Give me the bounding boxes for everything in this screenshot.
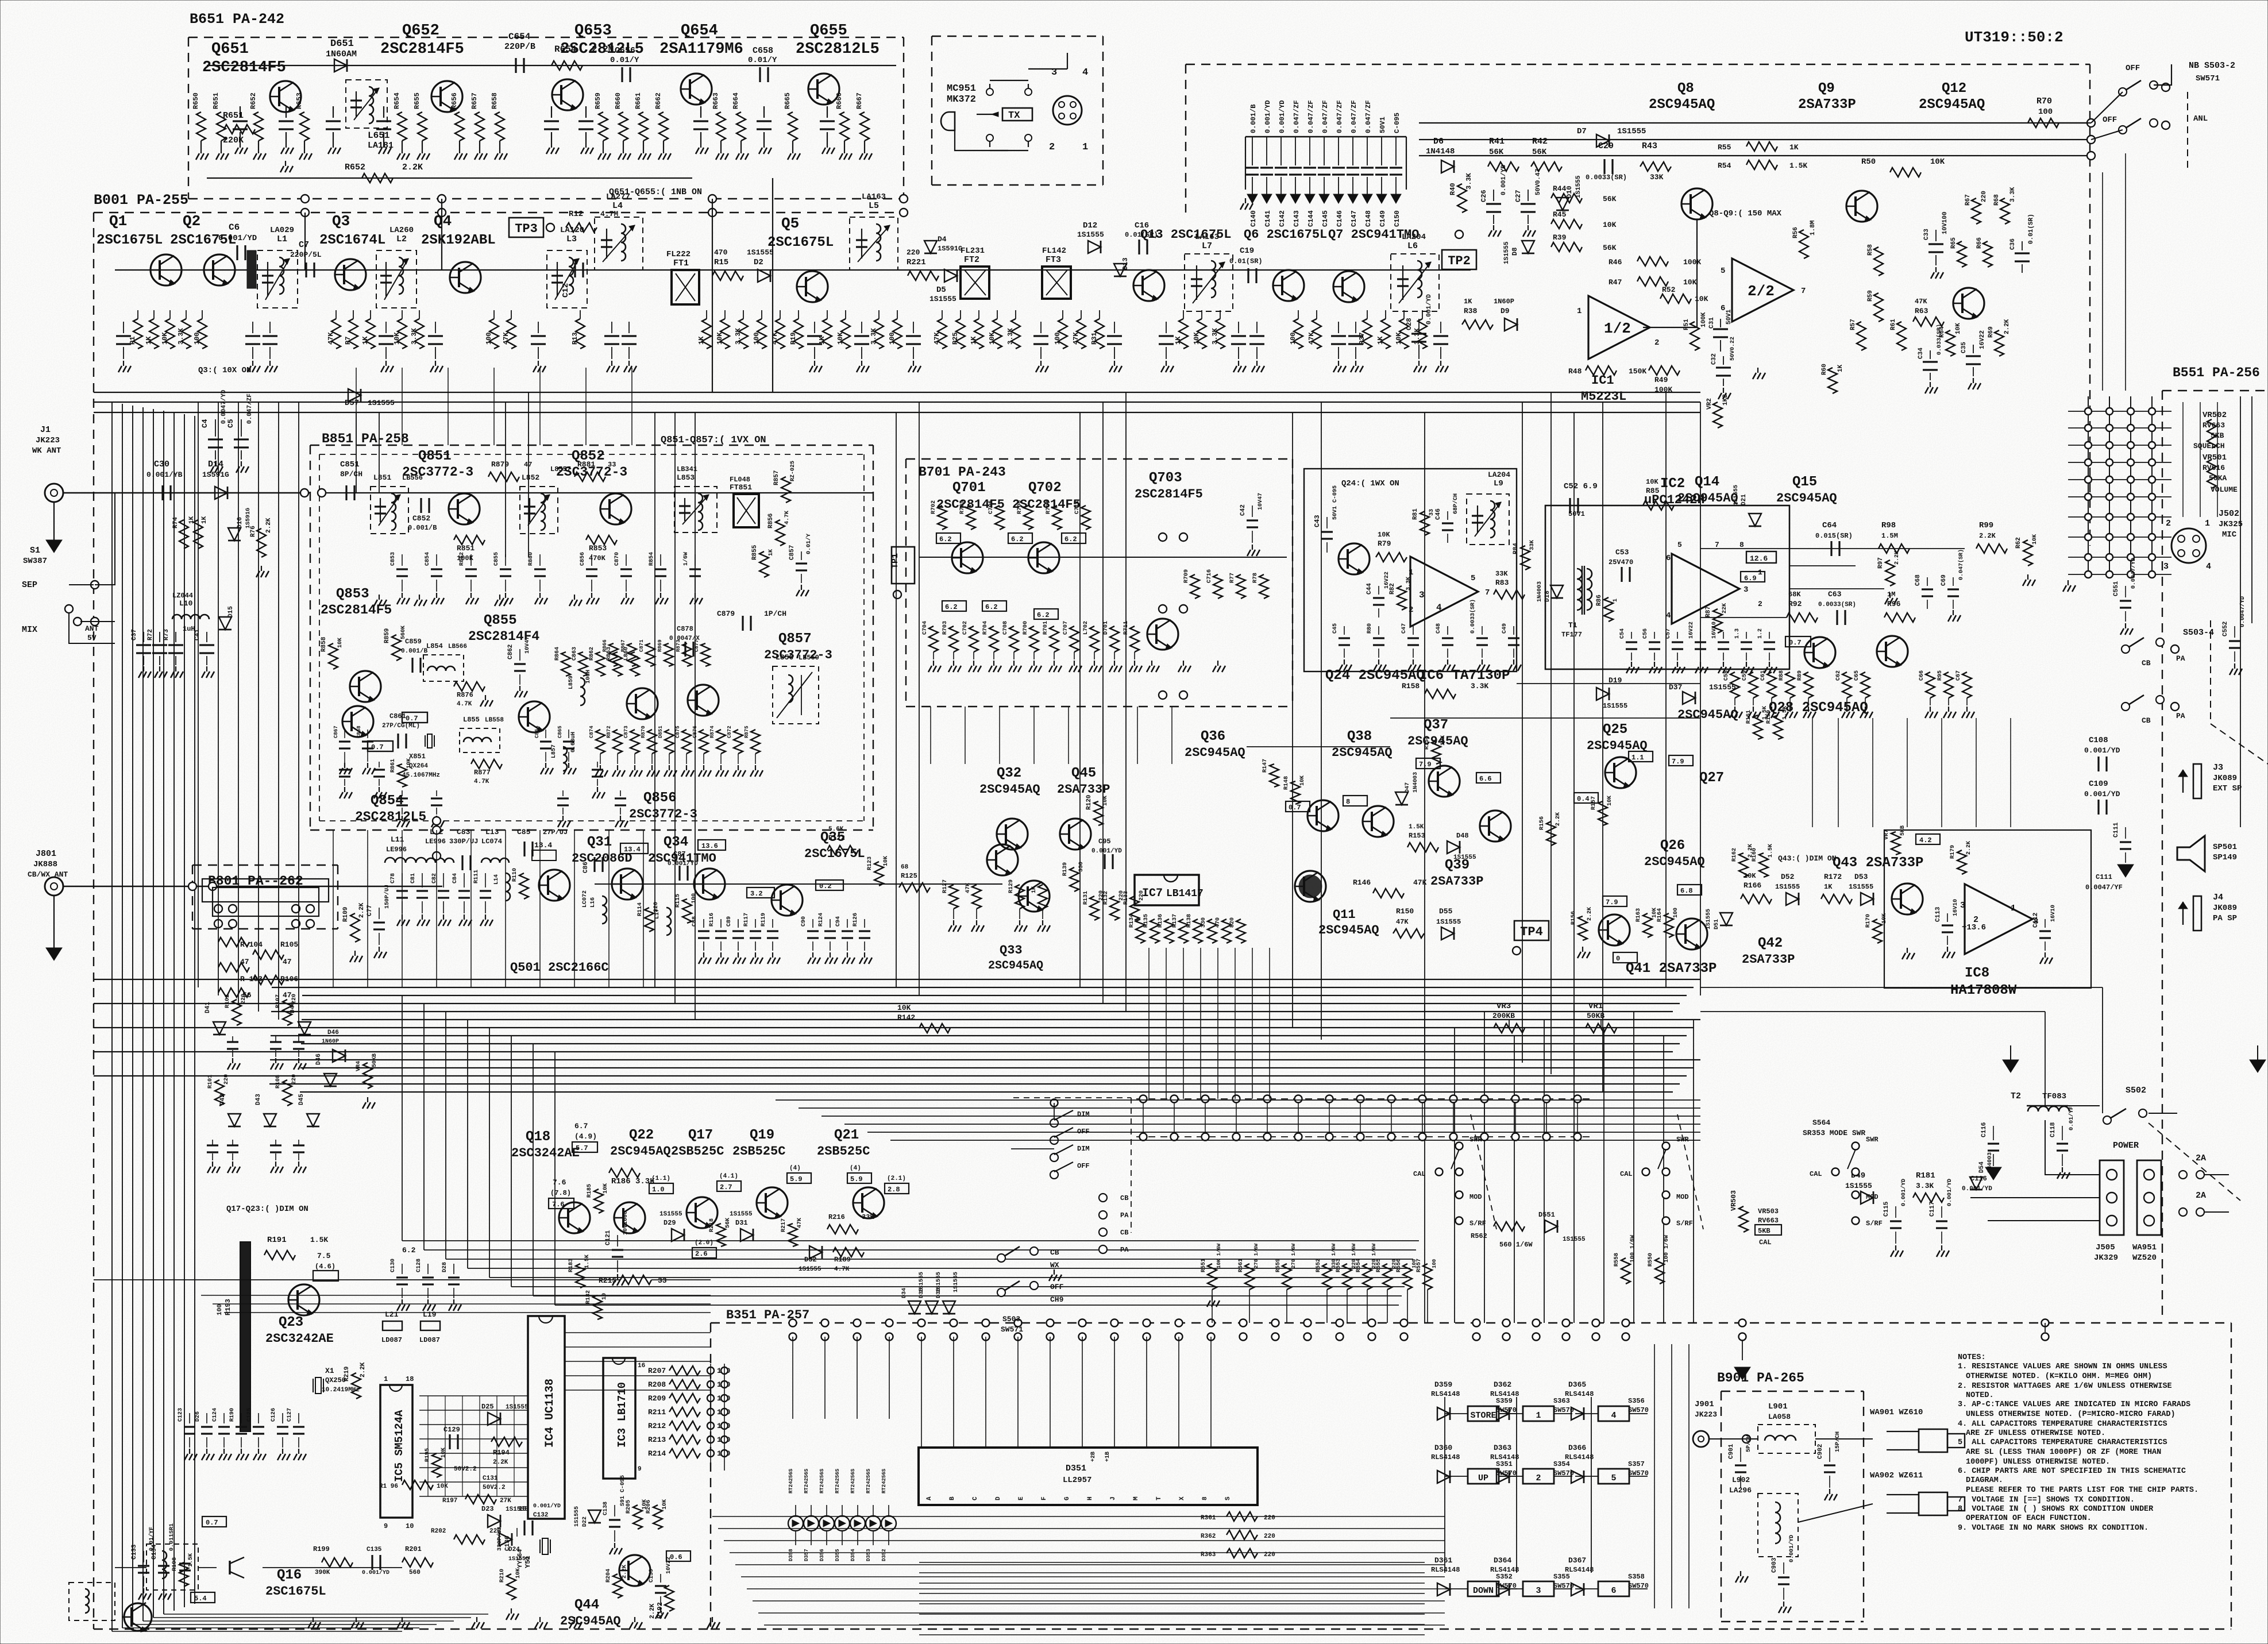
svg-text:C108: C108 bbox=[2089, 736, 2108, 745]
svg-text:R131: R131 bbox=[1083, 891, 1089, 905]
capacitor C879 1P/CH bbox=[742, 616, 743, 631]
svg-text:C129: C129 bbox=[443, 1426, 460, 1434]
svg-text:1: 1 bbox=[1613, 599, 1619, 602]
inductor L6 LA204 bbox=[1391, 254, 1439, 311]
svg-text:2SC945AQ: 2SC945AQ bbox=[610, 1144, 671, 1159]
svg-text:D366: D366 bbox=[1568, 1444, 1586, 1452]
svg-text:L3: L3 bbox=[566, 234, 577, 244]
svg-text:R651: R651 bbox=[212, 92, 220, 109]
svg-text:4: 4 bbox=[2206, 562, 2211, 572]
svg-text:220P/5L: 220P/5L bbox=[290, 250, 322, 259]
svg-text:R657: R657 bbox=[470, 92, 479, 109]
svg-text:5KB: 5KB bbox=[1758, 1227, 1771, 1235]
svg-text:C875: C875 bbox=[675, 725, 681, 738]
svg-text:VR503: VR503 bbox=[1730, 1190, 1738, 1211]
IC5-IC4 interconnect mesh bbox=[419, 1395, 528, 1396]
svg-text:UNLESS OTHERWISE NOTED. (P=MIC: UNLESS OTHERWISE NOTED. (P=MICRO-MICRO F… bbox=[1966, 1410, 2176, 1419]
svg-text:R142: R142 bbox=[897, 1013, 915, 1022]
svg-text:D37: D37 bbox=[1669, 683, 1682, 692]
svg-text:R19: R19 bbox=[789, 332, 797, 345]
resistor R83 33K bbox=[1494, 590, 1525, 599]
svg-text:C84: C84 bbox=[452, 873, 458, 883]
svg-text:5V: 5V bbox=[87, 634, 97, 642]
mid row caps under bbox=[703, 919, 704, 928]
svg-text:L902: L902 bbox=[1732, 1476, 1750, 1484]
svg-text:R105: R105 bbox=[280, 940, 298, 949]
svg-text:R183: R183 bbox=[568, 1259, 574, 1272]
svg-text:1S1555: 1S1555 bbox=[1575, 175, 1582, 198]
svg-text:15P/CH: 15P/CH bbox=[1834, 1431, 1841, 1452]
inductor dashed box bottom left bbox=[146, 1544, 198, 1590]
svg-text:C68: C68 bbox=[1915, 574, 1922, 586]
svg-text:C135: C135 bbox=[367, 1546, 382, 1553]
svg-text:2SC945AQ: 2SC945AQ bbox=[1644, 855, 1705, 869]
svg-text:S356: S356 bbox=[1628, 1397, 1645, 1405]
keypad button DOWN bbox=[1468, 1581, 1499, 1596]
resistor R48 150K bbox=[1586, 366, 1617, 375]
svg-text:L2: L2 bbox=[396, 234, 407, 244]
svg-text:C145: C145 bbox=[1321, 210, 1329, 227]
svg-text:R861: R861 bbox=[390, 759, 396, 773]
svg-text:2SA733P: 2SA733P bbox=[1057, 782, 1110, 797]
svg-text:S354: S354 bbox=[1553, 1460, 1570, 1468]
svg-text:R78: R78 bbox=[1252, 573, 1259, 583]
svg-text:C116: C116 bbox=[1970, 1175, 1987, 1183]
resistors R74 R75 vertical bbox=[179, 520, 188, 549]
svg-text:2.2K: 2.2K bbox=[2004, 319, 2011, 334]
svg-text:Q1: Q1 bbox=[109, 213, 127, 230]
diode D8 1S1555 vertical bbox=[1522, 241, 1534, 253]
transistor Q45 bbox=[1059, 819, 1091, 850]
svg-text:VR2: VR2 bbox=[1706, 398, 1713, 410]
svg-text:1KB: 1KB bbox=[1722, 394, 1729, 406]
svg-text:100: 100 bbox=[1289, 332, 1297, 345]
svg-text:S503: S503 bbox=[1002, 1315, 1020, 1323]
svg-text:Q37: Q37 bbox=[1424, 717, 1448, 733]
svg-text:50KB: 50KB bbox=[1587, 1012, 1604, 1020]
inductor L851 LB556 bbox=[371, 487, 408, 534]
svg-text:10K: 10K bbox=[441, 1448, 447, 1458]
diode D15 1S591G bbox=[219, 617, 232, 630]
svg-text:D34: D34 bbox=[901, 1288, 908, 1298]
svg-text:R866: R866 bbox=[602, 639, 608, 652]
svg-text:8: 8 bbox=[1346, 798, 1350, 806]
svg-text:C128: C128 bbox=[416, 1259, 422, 1272]
svg-text:1: 1 bbox=[1536, 1411, 1541, 1421]
diode D16 1S591G vertical bbox=[228, 528, 241, 541]
svg-text:R873: R873 bbox=[676, 639, 681, 652]
svg-text:220: 220 bbox=[907, 248, 920, 257]
svg-text:100: 100 bbox=[217, 1304, 223, 1315]
junction circles between dashed rails bbox=[301, 195, 309, 203]
svg-text:10K: 10K bbox=[1930, 157, 1945, 167]
capacitor C901 5P/CH bbox=[1740, 1448, 1741, 1462]
capacitor C85 27P/UJ bbox=[523, 842, 525, 856]
svg-text:MOD: MOD bbox=[1676, 1193, 1689, 1201]
keypad button 4 bbox=[1598, 1406, 1629, 1421]
svg-text:C95: C95 bbox=[1098, 838, 1111, 846]
svg-text:1: 1 bbox=[1082, 142, 1088, 153]
IC8 box outline bbox=[1884, 830, 2091, 988]
svg-text:1K: 1K bbox=[361, 336, 369, 345]
resistor R147 R148 verticals bbox=[1270, 764, 1279, 787]
svg-text:S/RF: S/RF bbox=[1866, 1220, 1883, 1228]
svg-text:C69: C69 bbox=[1941, 574, 1947, 586]
svg-text:R650: R650 bbox=[192, 92, 200, 109]
svg-text:0.001/YD: 0.001/YD bbox=[1426, 294, 1433, 325]
vertical dashed right of keypad bbox=[2045, 1323, 2046, 1337]
resistor R562 560 1/6W bbox=[1494, 1222, 1525, 1231]
transistor Q12 bbox=[1953, 288, 1984, 319]
resistor R98 1.5M bbox=[1879, 544, 1910, 553]
svg-text:C36: C36 bbox=[2009, 238, 2016, 250]
svg-text:R96: R96 bbox=[1887, 600, 1901, 608]
svg-text:LA058: LA058 bbox=[1768, 1413, 1791, 1421]
capacitor C63 0.0033(SR) bbox=[1836, 610, 1838, 625]
svg-text:R38: R38 bbox=[1464, 307, 1478, 315]
svg-text:IC2: IC2 bbox=[1660, 476, 1685, 492]
svg-text:R88: R88 bbox=[1779, 670, 1785, 681]
gnd row bottom left bbox=[313, 1617, 314, 1622]
resistor R198 1.5K vertical bbox=[179, 1562, 188, 1587]
svg-text:R853: R853 bbox=[589, 544, 607, 553]
svg-text:R875: R875 bbox=[744, 725, 750, 738]
diode D22 1S1555 vertical bbox=[588, 1510, 601, 1523]
svg-text:9: 9 bbox=[384, 1522, 388, 1530]
svg-text:RV663: RV663 bbox=[1758, 1217, 1779, 1225]
capacitor C116 0.001/YD bbox=[1993, 1126, 1994, 1140]
svg-text:R854: R854 bbox=[649, 552, 655, 566]
capacitor C147 bank bbox=[1352, 137, 1353, 165]
svg-text:WZ520: WZ520 bbox=[2132, 1253, 2157, 1263]
svg-text:R209: R209 bbox=[648, 1394, 666, 1403]
transistor Q855 bbox=[518, 701, 550, 732]
svg-text:10K: 10K bbox=[337, 638, 344, 648]
svg-text:D551: D551 bbox=[1538, 1211, 1555, 1219]
gnd row under Q851 bbox=[379, 595, 380, 600]
capacitor C95 0.001/YD bbox=[1104, 854, 1105, 869]
svg-text:1S1555: 1S1555 bbox=[574, 1506, 580, 1527]
svg-text:5: 5 bbox=[1721, 267, 1725, 276]
svg-text:330: 330 bbox=[1201, 917, 1207, 928]
svg-text:10K: 10K bbox=[1646, 478, 1658, 486]
svg-text:2.2K: 2.2K bbox=[402, 163, 423, 172]
svg-text:R214: R214 bbox=[648, 1449, 666, 1458]
svg-text:0.7: 0.7 bbox=[1289, 804, 1301, 812]
capacitor C859 0.001/B bbox=[411, 658, 413, 673]
svg-text:4: 4 bbox=[1666, 611, 1671, 620]
top right bus wires bbox=[1419, 122, 2091, 124]
svg-text:1S1555: 1S1555 bbox=[1436, 918, 1461, 926]
svg-text:R852: R852 bbox=[459, 552, 465, 566]
svg-text:C94: C94 bbox=[835, 916, 842, 927]
svg-text:33: 33 bbox=[658, 1276, 667, 1285]
svg-text:D353: D353 bbox=[866, 1549, 871, 1561]
capacitor C878 0.0047/X bbox=[684, 642, 686, 657]
capacitor C141 bank bbox=[1266, 137, 1267, 165]
transistor Q32 bbox=[996, 819, 1028, 850]
svg-text:1S1555: 1S1555 bbox=[659, 1211, 682, 1218]
capacitor C86 220P/UJ bbox=[593, 857, 595, 872]
svg-text:2SC945AQ: 2SC945AQ bbox=[1407, 734, 1468, 748]
svg-text:S355: S355 bbox=[1553, 1573, 1570, 1581]
resistor R876 4.7K bbox=[454, 682, 485, 691]
svg-text:R40: R40 bbox=[1449, 183, 1457, 195]
svg-text:R89: R89 bbox=[1797, 670, 1803, 681]
svg-text:SWR: SWR bbox=[1866, 1136, 1879, 1144]
svg-text:2: 2 bbox=[1654, 338, 1659, 348]
svg-text:0.01/Y: 0.01/Y bbox=[805, 534, 812, 554]
drops between rows 1913-1979 bbox=[1143, 1102, 1144, 1133]
svg-text:68K: 68K bbox=[1788, 591, 1801, 599]
svg-text:R137: R137 bbox=[1172, 914, 1178, 928]
LED D353 RT242565 bbox=[866, 1516, 881, 1531]
svg-text:2SC1674L: 2SC1674L bbox=[319, 233, 385, 248]
svg-text:47: 47 bbox=[240, 958, 249, 966]
svg-text:C131: C131 bbox=[483, 1475, 498, 1482]
keypad button STORE bbox=[1468, 1406, 1499, 1421]
svg-text:R31: R31 bbox=[1090, 332, 1098, 345]
B801 nested coax rectangles bbox=[202, 879, 329, 902]
long right verticals bbox=[2102, 172, 2103, 391]
svg-text:R869: R869 bbox=[657, 639, 663, 652]
svg-text:6.8: 6.8 bbox=[1680, 887, 1693, 895]
svg-text:2A: 2A bbox=[2196, 1153, 2206, 1163]
resistor R51 100K vertical bbox=[1690, 322, 1699, 350]
svg-text:C27: C27 bbox=[1514, 190, 1522, 202]
resistor R217 47K vertical bbox=[788, 1224, 797, 1246]
IC7 LB1417 box bbox=[1135, 875, 1199, 905]
svg-text:18: 18 bbox=[406, 1375, 414, 1383]
svg-text:2.2K: 2.2K bbox=[1555, 812, 1561, 826]
svg-text:10K: 10K bbox=[515, 1568, 522, 1579]
svg-text:C: C bbox=[972, 1496, 979, 1500]
svg-text:Q34: Q34 bbox=[664, 835, 688, 850]
keypad button 6 bbox=[1598, 1581, 1629, 1596]
inductor L9 LA204 bbox=[1467, 494, 1509, 545]
svg-text:R709: R709 bbox=[1183, 569, 1190, 583]
resistor R166 10K bbox=[1741, 894, 1772, 904]
capacitor C108 0.001/YD bbox=[2097, 757, 2099, 771]
svg-text:Q655: Q655 bbox=[810, 22, 847, 40]
opamp IC8 HA17808W bbox=[1965, 884, 2032, 954]
diode D551 bbox=[1545, 1220, 1557, 1233]
svg-text:2SC2812L5: 2SC2812L5 bbox=[796, 41, 880, 58]
right edge vertical wires bbox=[2240, 396, 2241, 827]
resistor R218 56K vertical bbox=[716, 1224, 726, 1246]
svg-text:HA17808W: HA17808W bbox=[1950, 983, 2017, 998]
svg-text:R185: R185 bbox=[587, 1184, 593, 1198]
svg-text:0.0033(SR): 0.0033(SR) bbox=[1469, 599, 1476, 634]
inductor L3 LA120 bbox=[547, 250, 587, 308]
svg-text:D13: D13 bbox=[1121, 257, 1129, 270]
svg-text:56K: 56K bbox=[725, 1218, 731, 1228]
transistor Q3 bbox=[334, 259, 366, 290]
capacitor bank C140-C151 rail bbox=[1245, 136, 1406, 138]
svg-text:J3: J3 bbox=[2213, 763, 2223, 773]
svg-text:0.001/YD: 0.001/YD bbox=[1900, 1179, 1907, 1206]
junctions at B851 bottom bbox=[433, 826, 441, 834]
right junction grid verticals bbox=[2088, 396, 2089, 574]
svg-text:2/2: 2/2 bbox=[1748, 283, 1775, 300]
svg-text:7.9: 7.9 bbox=[1606, 898, 1618, 906]
svg-text:220: 220 bbox=[1264, 1515, 1275, 1522]
svg-text:22K: 22K bbox=[1722, 603, 1728, 613]
resistor R50 10K bbox=[1890, 168, 1921, 177]
R551-R557 vertical resistors bbox=[1208, 1264, 1217, 1290]
svg-text:R181: R181 bbox=[1916, 1171, 1935, 1180]
svg-text:13.4: 13.4 bbox=[624, 846, 641, 854]
transistor Q857b bbox=[687, 685, 719, 716]
svg-text:D48: D48 bbox=[1456, 832, 1469, 840]
svg-text:C66: C66 bbox=[1919, 670, 1925, 681]
diode D363 RLS4148 bbox=[1496, 1471, 1509, 1483]
svg-text:R51: R51 bbox=[1683, 319, 1690, 330]
svg-text:JK325: JK325 bbox=[2219, 520, 2243, 529]
svg-text:50V1: 50V1 bbox=[1379, 117, 1387, 133]
svg-text:C861: C861 bbox=[389, 712, 406, 720]
capacitor C552 bbox=[2234, 626, 2235, 638]
svg-text:C45: C45 bbox=[1332, 623, 1339, 634]
resistor R181 3.3K bbox=[1913, 1193, 1944, 1202]
svg-text:J801: J801 bbox=[36, 849, 56, 859]
diode D367 RLS4148 bbox=[1571, 1583, 1584, 1596]
svg-text:POWER: POWER bbox=[2113, 1141, 2139, 1151]
svg-text:NB S503-2: NB S503-2 bbox=[2189, 61, 2235, 71]
ground arrows power bbox=[2003, 1060, 2019, 1072]
svg-text:C109: C109 bbox=[2089, 779, 2108, 789]
resistor R69 2.2K vertical bbox=[1995, 330, 2004, 356]
svg-text:H: H bbox=[1087, 1496, 1094, 1500]
test point TP2 bbox=[1442, 250, 1476, 269]
svg-text:WK ANT: WK ANT bbox=[32, 446, 61, 456]
VR7 5KB bbox=[1891, 832, 1900, 855]
svg-text:L9: L9 bbox=[1494, 479, 1503, 488]
capacitor C43 50V1 bbox=[1326, 517, 1328, 528]
resistor R186 3.3K bbox=[609, 1168, 640, 1178]
bus rail A y683 bbox=[94, 392, 1700, 393]
svg-text:OPERATION OF EACH FUNCTION.: OPERATION OF EACH FUNCTION. bbox=[1966, 1514, 2092, 1523]
capacitor C12 100P/5L bbox=[574, 263, 576, 277]
svg-text:R215: R215 bbox=[599, 1276, 616, 1285]
svg-text:7: 7 bbox=[1485, 588, 1490, 597]
svg-text:R659: R659 bbox=[594, 92, 602, 109]
resistor R856 4.7K vertical bbox=[776, 520, 785, 546]
resistor R861 10K vertical bbox=[398, 764, 407, 787]
svg-text:R83: R83 bbox=[1495, 578, 1509, 587]
keypad right verticals bbox=[1654, 1344, 1655, 1608]
svg-text:10K: 10K bbox=[603, 1183, 609, 1194]
svg-text:R153: R153 bbox=[1409, 832, 1425, 840]
svg-text:5. ALL CAPACITORS TEMPERATURE: 5. ALL CAPACITORS TEMPERATURE CHARACTERI… bbox=[1958, 1438, 2167, 1447]
svg-text:1N4003: 1N4003 bbox=[1413, 772, 1419, 793]
svg-text:R76: R76 bbox=[250, 526, 257, 537]
capacitor C27 bbox=[1528, 190, 1529, 201]
svg-text:R661: R661 bbox=[634, 92, 642, 109]
diode D57 1S1555 bbox=[348, 389, 361, 402]
VR503 CAL pot bottom bbox=[1739, 1206, 1748, 1232]
keypad button 5 bbox=[1598, 1469, 1629, 1484]
svg-text:VR501: VR501 bbox=[2203, 453, 2227, 462]
opamp IC1 1/2 bbox=[1588, 296, 1650, 359]
resistor R67 220 R68 3.3K verticals bbox=[1972, 198, 1981, 224]
svg-text:220: 220 bbox=[1264, 1533, 1275, 1540]
svg-text:L1: L1 bbox=[277, 234, 287, 244]
svg-text:Q24:( 1WX ON: Q24:( 1WX ON bbox=[1341, 479, 1399, 488]
B701 upper resistors bbox=[938, 505, 947, 530]
svg-text:R552: R552 bbox=[1316, 1259, 1322, 1272]
svg-text:D4: D4 bbox=[938, 235, 947, 244]
svg-text:TP2: TP2 bbox=[1448, 254, 1471, 268]
svg-text:9: 9 bbox=[638, 1466, 642, 1473]
svg-text:C865: C865 bbox=[557, 725, 563, 738]
transistor Q853 bbox=[349, 671, 381, 702]
cap C130 cluster above bbox=[402, 1264, 403, 1274]
resistor R191 1.5K bbox=[264, 1251, 295, 1260]
keypad-display wires bbox=[919, 1562, 1425, 1563]
svg-text:2. RESISTOR WATTAGES ARE 1/6W: 2. RESISTOR WATTAGES ARE 1/6W UNLESS OTH… bbox=[1958, 1382, 2172, 1391]
svg-text:D52: D52 bbox=[1781, 873, 1795, 881]
svg-text:0.01(SR): 0.01(SR) bbox=[1229, 257, 1263, 265]
svg-text:R156: R156 bbox=[1539, 816, 1545, 830]
resistor R879 47 bbox=[488, 472, 519, 481]
svg-text:C859: C859 bbox=[405, 638, 422, 646]
capacitor C135 0.001/YD bbox=[371, 1555, 373, 1570]
svg-text:1S1555: 1S1555 bbox=[1849, 883, 1873, 891]
resistor R189 4.7K bbox=[833, 1248, 864, 1257]
svg-text:R561: R561 bbox=[1238, 1259, 1244, 1272]
svg-text:D18: D18 bbox=[1544, 591, 1551, 602]
svg-text:CB: CB bbox=[2142, 716, 2151, 725]
transistor Q854 bbox=[342, 706, 373, 737]
crystal Y51 YY564 bbox=[539, 1539, 541, 1553]
svg-text:QX250: QX250 bbox=[325, 1376, 346, 1384]
resistor R858 R859 verticals bbox=[329, 643, 338, 669]
svg-text:1.5K: 1.5K bbox=[188, 1553, 194, 1567]
small transistor bottom far left bbox=[122, 1603, 152, 1632]
diode D19 1S1555 bbox=[1596, 688, 1609, 700]
svg-text:R85: R85 bbox=[1646, 487, 1660, 495]
power wires bbox=[2068, 1105, 2100, 1106]
resistor R109 2.2K vertical bbox=[350, 913, 360, 942]
svg-text:C134: C134 bbox=[151, 1544, 158, 1560]
svg-text:ARE ZF UNLESS OTHERWISE NOTED.: ARE ZF UNLESS OTHERWISE NOTED. bbox=[1966, 1429, 2105, 1438]
svg-text:50V0.22: 50V0.22 bbox=[1730, 337, 1736, 361]
gnd B901 bbox=[1740, 1571, 1741, 1576]
svg-text:RLS4148: RLS4148 bbox=[1431, 1566, 1460, 1574]
svg-text:R60: R60 bbox=[1821, 364, 1828, 375]
capacitor C6 0.001/YD bbox=[236, 245, 238, 260]
svg-text:B851 PA-258: B851 PA-258 bbox=[322, 431, 409, 446]
svg-text:R116: R116 bbox=[709, 913, 715, 927]
transistor Q13 bbox=[1133, 270, 1164, 301]
svg-text:27K: 27K bbox=[500, 1498, 511, 1504]
svg-text:L856: L856 bbox=[776, 653, 793, 662]
svg-text:6.2: 6.2 bbox=[939, 535, 952, 543]
svg-text:4.7K: 4.7K bbox=[834, 1266, 850, 1273]
resistor R185 10K vertical bbox=[594, 1189, 603, 1213]
svg-text:VR4: VR4 bbox=[356, 1061, 362, 1071]
svg-text:EXT SP: EXT SP bbox=[2213, 784, 2242, 793]
svg-text:Q11: Q11 bbox=[1333, 908, 1356, 922]
svg-text:C111: C111 bbox=[2096, 873, 2112, 881]
transistor Q44 bottom bbox=[619, 1555, 650, 1586]
svg-text:7.9: 7.9 bbox=[1672, 758, 1684, 766]
capacitor C902 15P/CH bbox=[1829, 1448, 1830, 1462]
VR1 50KB pot bbox=[1586, 1024, 1617, 1033]
B801 caps cluster bbox=[232, 1036, 233, 1042]
wire J1 to right bbox=[63, 492, 310, 493]
